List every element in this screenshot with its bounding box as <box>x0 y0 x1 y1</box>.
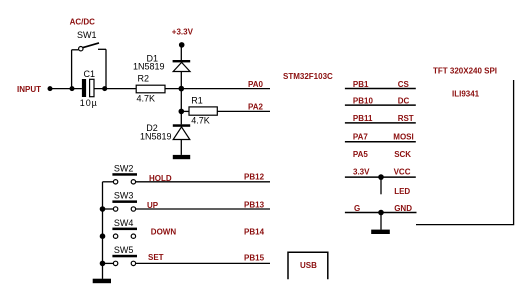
node row PA5/SCK <box>353 150 411 159</box>
power +3.3V <box>172 28 194 48</box>
wire GND to ground <box>380 213 382 230</box>
ground bottom left <box>93 279 111 284</box>
junction bus SW3 <box>100 206 106 212</box>
svg-text:PB13: PB13 <box>244 201 265 210</box>
node row PB1/CS <box>345 80 416 89</box>
wire junction to D2 <box>180 111 182 124</box>
svg-text:SW3: SW3 <box>114 191 134 201</box>
svg-text:VCC: VCC <box>394 168 411 177</box>
svg-text:INPUT: INPUT <box>17 85 41 94</box>
svg-text:SW5: SW5 <box>114 245 134 255</box>
wire bus to SW3 <box>103 208 114 210</box>
diode D1 <box>173 60 191 72</box>
svg-text:MOSI: MOSI <box>393 133 413 142</box>
node row 3.3V/VCC <box>345 168 416 178</box>
svg-text:SW1: SW1 <box>77 30 97 40</box>
svg-text:PB15: PB15 <box>244 254 265 263</box>
node row PB10/DC <box>345 96 416 105</box>
wire D1 to junction <box>180 72 182 89</box>
junction GND <box>378 210 384 216</box>
svg-text:PB1: PB1 <box>353 80 369 89</box>
svg-text:10µ: 10µ <box>80 98 98 108</box>
junction bus SW4 <box>100 233 106 239</box>
resistor R2 <box>136 74 165 104</box>
svg-text:PA5: PA5 <box>353 150 369 159</box>
wire ground bus <box>102 182 104 279</box>
wire junction to junction R1 <box>180 89 182 112</box>
wire R1 to PA2 <box>217 110 270 112</box>
resistor R1 <box>181 96 217 126</box>
switch SW5 <box>112 245 137 265</box>
wire R2 to PA0 <box>165 88 270 90</box>
svg-text:DOWN: DOWN <box>151 227 177 236</box>
ground below D2 <box>173 155 190 159</box>
wire INPUT to C1 <box>50 88 82 90</box>
svg-text:4.7K: 4.7K <box>191 116 210 126</box>
svg-text:4.7K: 4.7K <box>137 94 156 104</box>
TFT module border <box>416 80 514 225</box>
junction right of C1 <box>102 86 107 91</box>
svg-text:+3.3V: +3.3V <box>172 28 194 37</box>
wire VCC to LED <box>380 177 382 194</box>
svg-text:HOLD: HOLD <box>149 174 172 183</box>
svg-text:1N5819: 1N5819 <box>133 62 165 72</box>
svg-text:R2: R2 <box>138 74 150 84</box>
USB connector box <box>288 252 328 279</box>
svg-text:UP: UP <box>147 201 159 210</box>
svg-text:SW2: SW2 <box>114 164 134 174</box>
switch SW3 <box>112 191 137 212</box>
diode D2 <box>173 124 190 139</box>
svg-text:SCK: SCK <box>394 150 411 159</box>
node row PB11/RST <box>345 114 416 123</box>
svg-text:STM32F103C: STM32F103C <box>283 72 333 81</box>
wire SW3 to PB13 <box>136 208 270 210</box>
switch SW2 <box>112 164 137 185</box>
svg-text:USB: USB <box>300 261 317 270</box>
wire bus to SW5 <box>103 262 114 264</box>
node row PA7/MOSI <box>345 133 416 142</box>
capacitor C1 <box>80 69 98 108</box>
svg-text:TFT 320X240 SPI: TFT 320X240 SPI <box>433 66 497 75</box>
svg-text:PB14: PB14 <box>244 228 265 237</box>
wire SW5 to PB15 <box>136 262 270 264</box>
junction bus SW5 <box>100 261 106 267</box>
node INPUT dot <box>48 86 53 91</box>
junction rail/R1 <box>179 109 185 115</box>
wire +3.3V to D1 <box>180 45 182 60</box>
svg-text:PB11: PB11 <box>353 114 373 123</box>
svg-text:1N5819: 1N5819 <box>140 131 172 141</box>
svg-text:LED: LED <box>394 187 410 196</box>
junction rail/PA0 <box>179 86 185 92</box>
wire C1 to R2 <box>94 88 136 90</box>
svg-text:PA7: PA7 <box>353 133 369 142</box>
switch SW4 <box>112 218 137 239</box>
ground TFT <box>371 230 390 234</box>
svg-text:DC: DC <box>398 96 410 105</box>
switch SW1 <box>72 43 106 89</box>
svg-text:C1: C1 <box>84 69 96 79</box>
wire D2 to ground <box>180 140 182 155</box>
svg-text:RST: RST <box>398 114 414 123</box>
wire bus corner SW2 <box>103 181 114 183</box>
junction left of SW1 <box>70 86 75 91</box>
svg-text:SW4: SW4 <box>114 218 134 228</box>
svg-text:ILI9341: ILI9341 <box>452 89 480 98</box>
svg-text:R1: R1 <box>191 96 203 106</box>
svg-text:PA0: PA0 <box>248 80 264 89</box>
svg-text:PB12: PB12 <box>244 173 265 182</box>
wire SW2 to PB12 <box>136 181 270 183</box>
svg-text:PB10: PB10 <box>353 96 374 105</box>
node row G/GND <box>345 204 417 213</box>
svg-text:3.3V: 3.3V <box>353 168 370 177</box>
svg-text:AC/DC: AC/DC <box>70 18 96 27</box>
svg-text:SET: SET <box>148 253 164 262</box>
junction VCC <box>378 174 384 180</box>
svg-text:CS: CS <box>398 80 410 89</box>
svg-text:PA2: PA2 <box>248 102 264 111</box>
